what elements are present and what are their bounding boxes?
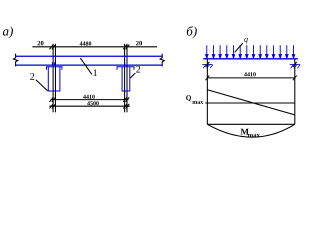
label q [244,35,248,44]
label Mmax [240,127,260,139]
svg-text:4410: 4410 [83,95,95,101]
svg-text:1: 1 [93,68,98,79]
column shaft right [122,67,130,91]
value 20 left [37,40,44,47]
value 4410 [83,95,95,101]
svg-text:б): б) [186,24,197,39]
value 20 right [136,40,143,47]
support left [202,62,213,68]
moment baseline [207,123,294,125]
label b) [186,24,197,39]
leader label q [235,43,243,52]
value 4480 [79,42,91,48]
ticks span 4410 [206,76,297,81]
label 2 left [30,72,35,83]
svg-text:4480: 4480 [79,42,91,48]
slab joint notch left [52,62,54,65]
dimension line 4500 [49,105,130,107]
ticks 4500 [50,104,130,109]
svg-text:а): а) [2,24,13,39]
dimension line top (20|4480|20) [32,46,157,48]
support right [290,62,301,68]
svg-text:max: max [248,132,261,139]
shear diagram diagonal [207,90,294,115]
value 4500 [87,101,99,107]
svg-text:max: max [192,100,203,106]
dimension line 4410 span [207,77,294,79]
leader label 1 [80,58,91,74]
column capital left [47,67,62,70]
shear zero line [205,102,294,104]
beam slab bottom chord [16,64,163,66]
beam slab top chord [16,55,163,57]
beam line [203,58,298,60]
leader label 2 right [130,73,135,78]
break symbol right [160,54,164,67]
dimension line 4410 [51,99,129,101]
extension line pair right [125,44,127,113]
svg-text:20: 20 [37,40,44,47]
svg-text:q: q [244,35,248,44]
value 4410 span [244,72,256,78]
slab joint notch right [125,62,127,65]
label Qmax [186,93,204,106]
leader label 2 left [36,80,48,91]
ticks 4410 [50,97,130,102]
svg-text:2: 2 [136,65,141,76]
svg-text:2: 2 [30,72,35,83]
moment parabola [207,124,294,137]
label a) [2,24,13,39]
svg-text:4410: 4410 [244,72,256,78]
svg-text:4500: 4500 [87,101,99,107]
svg-text:Q: Q [186,93,192,102]
extension line pair left [53,44,55,113]
svg-text:20: 20 [136,40,143,47]
diagram frame right edge [294,59,296,125]
label 2 right [136,65,141,76]
label 1 [93,68,98,79]
distributed load q arrows [206,45,295,58]
column shaft left [48,67,60,91]
tick marks top dimension [50,45,130,50]
break symbol left [14,54,18,67]
column capital right [117,67,134,70]
diagram frame left edge [206,59,208,125]
